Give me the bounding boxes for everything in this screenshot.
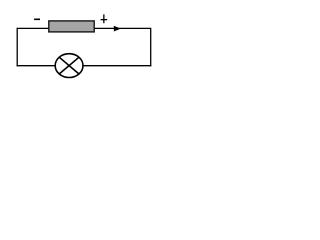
wire top-left segment [17, 27, 49, 29]
lamp L1 (circle with cross) [55, 54, 83, 78]
label + (positive terminal) [101, 14, 108, 23]
wire top-right segment [94, 27, 150, 29]
wire right segment [150, 28, 152, 67]
wire bottom-left segment [17, 65, 55, 67]
battery B1 (gray block source) [49, 21, 94, 32]
label - (negative terminal) [34, 19, 40, 21]
wire bottom-right segment [83, 65, 151, 67]
wire left segment [16, 28, 18, 67]
current direction arrow [114, 26, 121, 32]
